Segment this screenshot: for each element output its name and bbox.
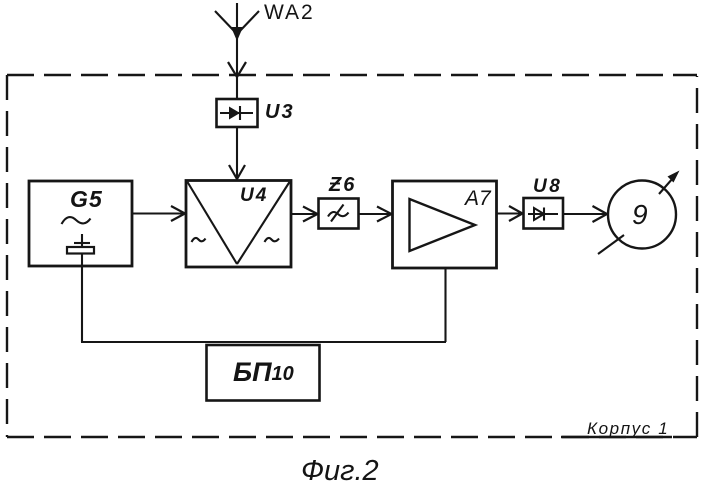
svg-text:U4: U4 bbox=[240, 185, 268, 206]
svg-text:Фиг.2: Фиг.2 bbox=[301, 455, 379, 485]
svg-text:Z6: Z6 bbox=[328, 174, 356, 196]
svg-text:U8: U8 bbox=[533, 176, 562, 197]
svg-text:U3: U3 bbox=[265, 101, 295, 123]
svg-text:9: 9 bbox=[632, 199, 648, 230]
svg-text:Корпус 1: Корпус 1 bbox=[587, 419, 669, 438]
svg-text:A7: A7 bbox=[463, 187, 492, 210]
svg-text:WA2: WA2 bbox=[264, 1, 315, 24]
svg-text:5: 5 bbox=[89, 186, 103, 212]
svg-text:G: G bbox=[70, 186, 88, 212]
